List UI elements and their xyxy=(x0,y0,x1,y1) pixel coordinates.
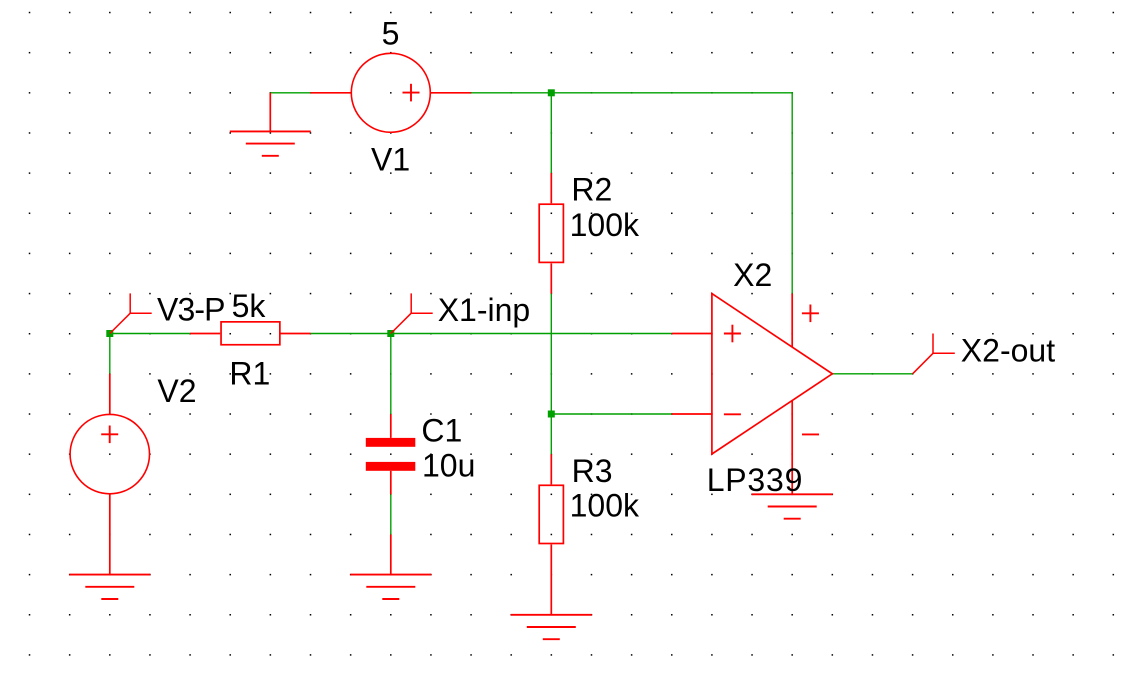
svg-text:X2: X2 xyxy=(733,257,772,293)
svg-text:R1: R1 xyxy=(229,356,270,392)
svg-text:R3: R3 xyxy=(572,453,613,489)
svg-text:5k: 5k xyxy=(232,288,267,324)
svg-text:C1: C1 xyxy=(421,413,462,449)
svg-text:5: 5 xyxy=(382,16,400,52)
svg-text:X1-inp: X1-inp xyxy=(438,292,531,328)
svg-text:R2: R2 xyxy=(571,171,612,207)
svg-text:V3-P: V3-P xyxy=(157,291,225,327)
svg-text:100k: 100k xyxy=(570,207,640,243)
svg-text:V2: V2 xyxy=(157,373,196,409)
svg-text:LP339: LP339 xyxy=(707,462,804,498)
svg-text:V1: V1 xyxy=(371,142,410,178)
svg-text:100k: 100k xyxy=(570,488,640,524)
svg-text:X2-out: X2-out xyxy=(961,332,1055,368)
svg-text:10u: 10u xyxy=(422,448,475,484)
